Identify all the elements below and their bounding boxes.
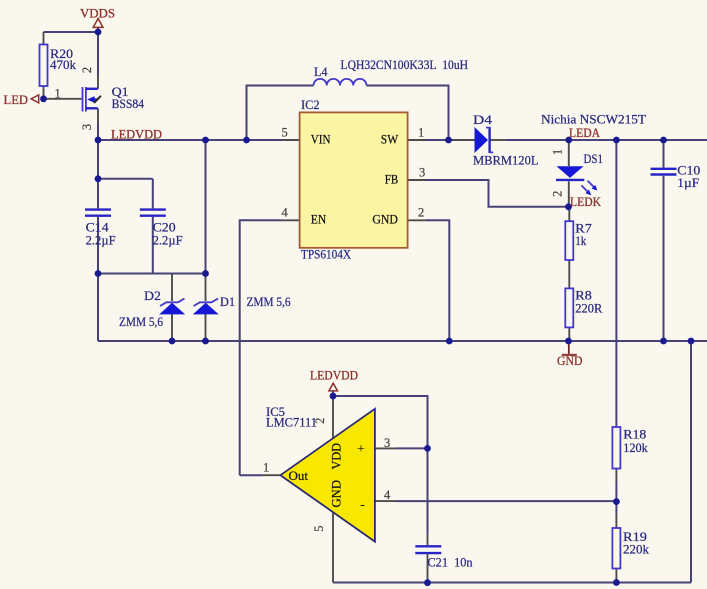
- svg-text:FB: FB: [385, 172, 399, 187]
- zener diode D2: [159, 299, 185, 315]
- wire VDDS to Q1 drain: [97, 28, 99, 75]
- svg-text:GND: GND: [372, 212, 397, 227]
- svg-text:2.2µF: 2.2µF: [86, 232, 116, 247]
- resistor R8: [565, 288, 573, 327]
- svg-text:5: 5: [282, 126, 288, 140]
- junction R8 on GND rail: [565, 338, 572, 345]
- svg-text:MBRM120L: MBRM120L: [473, 153, 539, 168]
- wire LED net to Q1 gate: [44, 98, 82, 100]
- transistor Q1 BSS84: [83, 87, 101, 112]
- wire R7 top lead: [568, 207, 570, 221]
- wire noninverting net to C21 column: [395, 447, 428, 449]
- wire L4 right branch: [367, 86, 449, 141]
- svg-text:2: 2: [313, 418, 327, 424]
- svg-text:DS1: DS1: [584, 151, 604, 166]
- wire C21 bottom lead: [427, 554, 429, 583]
- resistor R20: [40, 45, 48, 87]
- wire op-amp inverting input: [375, 500, 395, 502]
- svg-text:L4: L4: [314, 64, 328, 79]
- wire EN net to op-amp output: [240, 220, 281, 475]
- wire IC2 VIN pin stub: [281, 139, 300, 141]
- wire R18 to divider node: [615, 482, 617, 502]
- svg-text:3: 3: [384, 436, 390, 450]
- wire FB net to LEDK: [426, 180, 569, 207]
- svg-text:2: 2: [418, 206, 424, 220]
- wire R20 top lead: [43, 32, 45, 45]
- junction noninverting input C21: [424, 445, 431, 452]
- svg-text:LEDA: LEDA: [569, 125, 601, 140]
- wire D4 anode stub: [449, 139, 475, 141]
- svg-text:D2: D2: [144, 288, 161, 303]
- wire C10 top lead: [663, 140, 665, 168]
- resistor R19: [612, 528, 620, 569]
- wire IC2 GND pin stub: [408, 219, 427, 221]
- svg-text:LEDVDD: LEDVDD: [111, 127, 162, 142]
- wire IC2 GND to rail: [426, 220, 449, 341]
- wire D1 top lead: [205, 274, 207, 302]
- wire Q1 source to LEDVDD rail: [97, 123, 99, 140]
- wire IC2 FB pin stub: [408, 179, 427, 181]
- svg-text:4: 4: [282, 206, 289, 220]
- svg-text:1: 1: [418, 126, 424, 140]
- power symbol LEDVDD at op-amp: [329, 383, 338, 396]
- wire divider node to R19: [615, 502, 617, 514]
- svg-text:LED: LED: [4, 92, 29, 107]
- svg-text:220k: 220k: [623, 542, 650, 557]
- svg-text:4: 4: [384, 488, 391, 502]
- wire op-amp VDD pin stub: [332, 396, 334, 439]
- svg-text:5: 5: [312, 525, 326, 531]
- junction LEDA at C10: [660, 137, 667, 144]
- wire bottom rail: [333, 582, 691, 584]
- wire IC2 EN pin stub: [281, 219, 300, 221]
- wire output net: [240, 474, 262, 476]
- wire R18 bottom lead: [615, 469, 617, 483]
- junction right edge on GND rail: [688, 338, 695, 345]
- svg-text:LEDK: LEDK: [570, 194, 602, 209]
- wire R8 bottom lead: [568, 327, 570, 341]
- resistor R7: [565, 221, 573, 260]
- svg-text:Out: Out: [289, 468, 309, 483]
- inductor L4: [314, 79, 367, 86]
- svg-text:1k: 1k: [575, 233, 586, 248]
- svg-text:1: 1: [55, 87, 61, 101]
- svg-text:470k: 470k: [50, 57, 77, 72]
- capacitor C21: [415, 546, 441, 553]
- junction LEDK node: [565, 203, 572, 210]
- wire IC2 SW pin stub: [408, 139, 427, 141]
- junction LED port: [40, 95, 47, 102]
- junction Q1 source on LEDVDD rail: [95, 137, 102, 144]
- wire GND rail: [98, 340, 707, 342]
- junction D1 on GND rail: [202, 338, 209, 345]
- wire C20 bottom lead: [152, 217, 154, 274]
- svg-text:TPS6104X: TPS6104X: [301, 246, 352, 261]
- svg-text:C21 10n: C21 10n: [428, 555, 473, 570]
- junction cap bottom right: [202, 270, 209, 277]
- op-amp IC5: [280, 409, 375, 542]
- junction C10 on GND rail: [660, 338, 667, 345]
- svg-text:1µF: 1µF: [677, 175, 699, 190]
- power symbol VDDS: [93, 19, 103, 28]
- wire D1 bottom lead: [205, 314, 207, 342]
- svg-text:LQH32CN100K33L 10uH: LQH32CN100K33L 10uH: [341, 57, 469, 72]
- svg-text:1: 1: [263, 461, 269, 475]
- wire D2 bottom lead: [171, 314, 173, 342]
- svg-text:VDDS: VDDS: [80, 6, 115, 21]
- IC2 TPS6104X body: [300, 112, 408, 247]
- svg-text:3: 3: [419, 166, 425, 180]
- junction divider node: [613, 498, 620, 505]
- wire op-amp noninverting input: [375, 447, 395, 449]
- wire LEDVDD rail: [98, 139, 281, 141]
- wire D2 top lead: [171, 274, 173, 302]
- port LED: [31, 95, 39, 103]
- wire R19 top lead: [615, 514, 617, 528]
- svg-text:SW: SW: [381, 132, 399, 147]
- junction SW node: [445, 137, 452, 144]
- wire L4 left branch: [247, 86, 314, 141]
- wire R20 bottom lead: [43, 86, 45, 99]
- svg-text:ZMM 5,6: ZMM 5,6: [247, 294, 291, 309]
- svg-text:120k: 120k: [623, 440, 648, 455]
- junction C21 bottom: [424, 579, 431, 586]
- junction IC2 GND on rail: [446, 338, 453, 345]
- svg-text:D1: D1: [220, 294, 235, 309]
- wire C14 column upper: [97, 140, 99, 208]
- junction VDDS: [95, 29, 102, 36]
- wire C20 top lead: [152, 179, 154, 209]
- wire C21 top lead: [427, 448, 429, 534]
- junction LEDA at R18 column: [613, 137, 620, 144]
- svg-text:GND: GND: [329, 480, 344, 508]
- wire op-amp output stub: [262, 474, 280, 476]
- svg-text:LMC7111: LMC7111: [266, 415, 317, 430]
- wire LEDA to R18: [615, 140, 617, 427]
- svg-text:2: 2: [551, 191, 565, 197]
- junction LEDVDD op-amp supply: [330, 393, 337, 400]
- svg-text:LEDVDD: LEDVDD: [310, 368, 358, 383]
- junction LEDA at DS1: [565, 137, 572, 144]
- wire LEDVDD supply to C21 column: [333, 396, 428, 448]
- wire C14 bottom lead to GND rail: [97, 217, 99, 341]
- svg-text:2.2µF: 2.2µF: [153, 232, 183, 247]
- wire inverting net to divider node: [395, 500, 616, 502]
- wire D4 cathode stub: [491, 139, 507, 141]
- svg-text:VIN: VIN: [311, 132, 331, 147]
- wire LEDA rail: [506, 139, 707, 141]
- junction cap bottom left: [95, 270, 102, 277]
- svg-text:IC2: IC2: [301, 97, 320, 112]
- diode D4 MBRM120L: [475, 127, 494, 153]
- svg-text:BSS84: BSS84: [112, 96, 145, 111]
- wire R19 bottom lead: [615, 569, 617, 583]
- svg-text:2: 2: [80, 67, 94, 73]
- wire DS1 cathode stub: [568, 181, 570, 207]
- svg-text:D4: D4: [473, 112, 493, 127]
- wire LEDVDD to zener tee: [205, 140, 207, 274]
- wire C10 bottom lead: [663, 176, 665, 341]
- svg-text:1: 1: [551, 149, 565, 155]
- svg-text:+: +: [357, 442, 365, 457]
- junction R19 bottom: [613, 579, 620, 586]
- svg-text:-: -: [360, 497, 365, 512]
- ground symbol GND: [562, 341, 577, 355]
- capacitor C14: [85, 210, 111, 216]
- wire R7 R8 link: [568, 260, 570, 288]
- svg-text:EN: EN: [311, 212, 327, 227]
- junction zener column on LEDVDD rail: [202, 137, 209, 144]
- wire Q1 drain pin stub: [97, 75, 99, 89]
- LED DS1: [556, 166, 597, 195]
- svg-text:GND: GND: [557, 353, 583, 368]
- wire C14 C20 top tee: [98, 178, 153, 180]
- wire SW net: [426, 139, 449, 141]
- zener diode D1: [193, 299, 219, 315]
- wire op-amp GND pin stub: [332, 512, 334, 583]
- wire cap bottom tee: [98, 273, 206, 275]
- svg-text:VDD: VDD: [329, 443, 344, 470]
- junction C14 C20 top: [95, 175, 102, 182]
- wire GND rail to bottom rail right edge: [690, 341, 692, 583]
- svg-text:ZMM 5,6: ZMM 5,6: [119, 314, 163, 329]
- wire VDDS top rail: [44, 31, 99, 33]
- capacitor C10: [651, 169, 677, 175]
- junction D2 on GND rail: [169, 338, 176, 345]
- resistor R18: [612, 427, 620, 469]
- junction L4 branch on LEDVDD rail: [243, 137, 250, 144]
- capacitor C20: [140, 210, 166, 216]
- svg-text:220R: 220R: [575, 301, 602, 316]
- wire DS1 anode stub: [568, 140, 570, 166]
- wire Q1 source pin stub: [97, 108, 99, 123]
- svg-text:3: 3: [80, 124, 94, 130]
